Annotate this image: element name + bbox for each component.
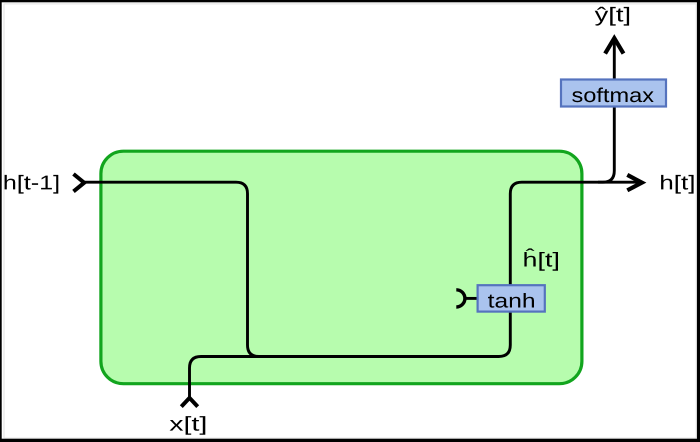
concat arc symbol at tanh input bbox=[456, 290, 465, 307]
label y-hat[t] bbox=[595, 7, 629, 26]
wire main h-path: h[t-1] in, down, along bottom, up through tanh, out to h[t] bbox=[85, 182, 642, 356]
label softmax bbox=[572, 88, 654, 103]
label h[t-1] bbox=[5, 175, 59, 194]
label h[t] bbox=[661, 175, 694, 194]
label h-hat[t] bbox=[524, 248, 558, 270]
input chevron for x[t] bbox=[181, 398, 197, 407]
arrowhead h[t] output bbox=[627, 175, 642, 190]
RNN cell body (green rounded box) bbox=[101, 151, 582, 384]
arrowhead y[t] output bbox=[605, 38, 623, 53]
concat arc stub wire bbox=[464, 297, 479, 300]
block softmax bbox=[561, 80, 666, 107]
block tanh bbox=[478, 285, 545, 311]
wire x[t] input rising into bottom bus bbox=[190, 357, 261, 399]
wire branch up to softmax bbox=[598, 39, 614, 183]
label x[t] bbox=[170, 416, 206, 435]
label tanh bbox=[488, 293, 534, 308]
input chevron for h[t-1] bbox=[74, 174, 85, 191]
